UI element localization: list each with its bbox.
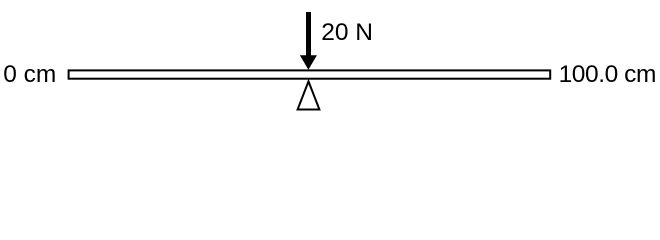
svg-text:100.0 cm: 100.0 cm [559,61,657,88]
svg-text:20 N: 20 N [321,19,373,46]
svg-text:0 cm: 0 cm [3,61,56,88]
